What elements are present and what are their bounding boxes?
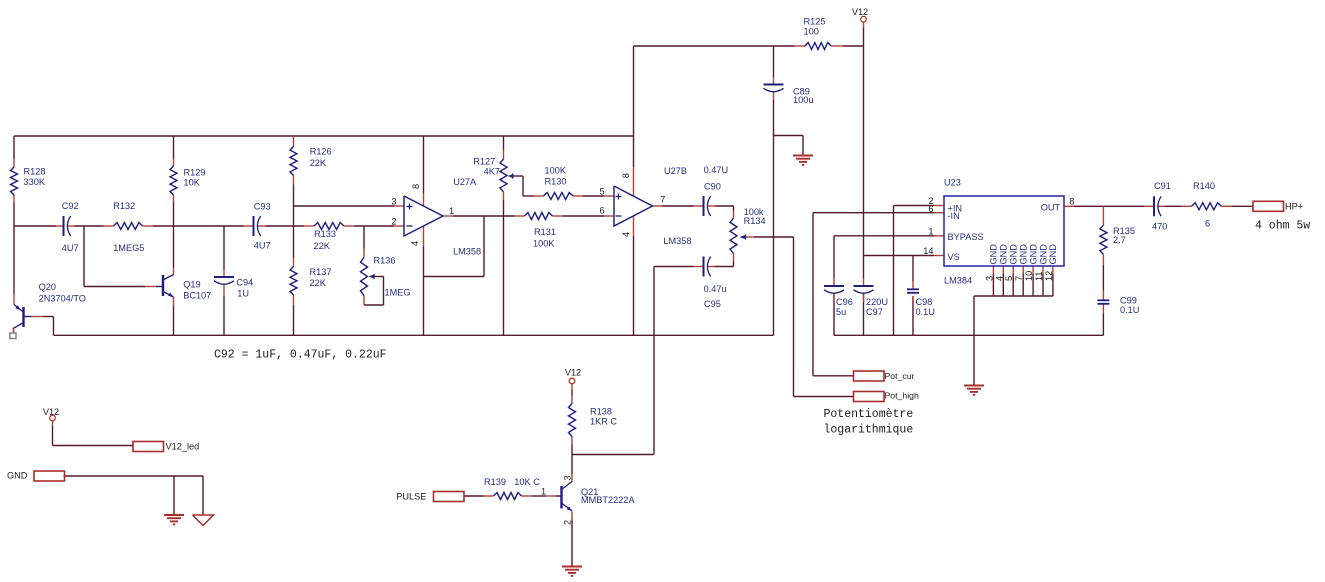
wire U27B pin4 x=633.5 <box>633 236 635 335</box>
pin stubs R133 <box>304 225 314 227</box>
svg-text:U27B: U27B <box>664 166 687 176</box>
pin stubs R132 <box>104 225 114 227</box>
port GND <box>34 471 65 481</box>
wire C89 ground branch <box>774 135 804 137</box>
svg-text:8: 8 <box>621 173 631 178</box>
svg-text:C91: C91 <box>1154 181 1171 191</box>
wire C98 tap x=913 <box>912 256 914 282</box>
pin stubs C96 <box>833 278 835 286</box>
svg-text:100: 100 <box>804 26 819 36</box>
capacitor C89 100u <box>764 84 784 86</box>
capacitor C95 0.47u <box>703 257 705 277</box>
svg-text:2N3704/TO: 2N3704/TO <box>39 293 86 303</box>
svg-text:1: 1 <box>928 226 933 236</box>
svg-text:10K C: 10K C <box>514 477 540 487</box>
svg-text:7: 7 <box>1014 276 1024 281</box>
svg-text:22K: 22K <box>310 158 327 168</box>
pin stubs R136 <box>363 249 365 258</box>
svg-text:10: 10 <box>1024 271 1034 281</box>
wire C95 left column x=654 down to Q21 collector node <box>654 266 694 268</box>
svg-text:V12: V12 <box>565 367 581 377</box>
svg-text:Potentiomètre: Potentiomètre <box>824 408 914 421</box>
svg-text:BC107: BC107 <box>183 290 211 300</box>
pin stub Q20 emitter <box>13 328 15 334</box>
earth ground bottom left <box>164 514 184 516</box>
wire U23 pin2 +IN net <box>894 205 935 207</box>
svg-text:330K: 330K <box>24 177 46 187</box>
wire main signal y=226 <box>14 225 56 227</box>
svg-text:5u: 5u <box>836 307 846 317</box>
pin stubs C90 <box>694 205 704 207</box>
wire R127 wiper to R130 <box>513 175 524 177</box>
svg-text:220U: 220U <box>866 297 888 307</box>
wire U27B output y=206 <box>663 205 694 207</box>
resistor R125 100 <box>805 43 831 50</box>
pin stubs U27B <box>604 195 614 197</box>
svg-text:V12_led: V12_led <box>166 442 200 452</box>
wire R135/C99 column x=1103.4 <box>1102 265 1104 291</box>
svg-text:6: 6 <box>928 204 933 214</box>
svg-text:10K: 10K <box>184 177 201 187</box>
wire op-amp U27A +in y=206 <box>294 205 395 207</box>
wire Q20 base to rail <box>43 316 54 318</box>
svg-text:U27A: U27A <box>453 177 477 187</box>
svg-text:3: 3 <box>563 475 573 480</box>
resistor R139 10K C <box>494 493 522 500</box>
svg-text:1KR C: 1KR C <box>590 417 617 427</box>
svg-text:C95: C95 <box>704 299 721 309</box>
svg-text:C94: C94 <box>236 278 253 288</box>
wire U27B pin8 supply column x=633.5 <box>633 46 635 167</box>
svg-text:3: 3 <box>984 276 994 281</box>
pin stubs Q21 <box>571 474 573 482</box>
svg-text:R128: R128 <box>24 167 46 177</box>
svg-text:LM384: LM384 <box>944 276 972 286</box>
svg-text:R133: R133 <box>314 229 336 239</box>
wire left block top rail y=136 <box>14 135 634 137</box>
pin stubs R126 <box>293 136 295 147</box>
power symbol V12 top <box>861 16 867 22</box>
resistor R140 6 <box>1192 203 1222 210</box>
wire R130 to U27B pin5 <box>583 195 604 197</box>
wire R128 column x=14 <box>13 136 15 159</box>
svg-text:3: 3 <box>391 197 396 207</box>
svg-text:GND: GND <box>1048 244 1058 265</box>
triangle ground bottom left <box>193 515 214 526</box>
resistor R135 2.7 <box>1100 225 1107 254</box>
svg-text:C93: C93 <box>254 202 271 212</box>
pin stubs R140 <box>1182 205 1192 207</box>
svg-text:R138: R138 <box>590 406 612 416</box>
svg-text:GND: GND <box>999 244 1009 265</box>
pin stubs R127 <box>503 150 505 160</box>
capacitor C96 5u <box>824 285 844 287</box>
svg-text:470: 470 <box>1152 222 1167 232</box>
pin stubs U23 left pins <box>934 205 944 207</box>
pin stubs C93 <box>244 225 254 227</box>
svg-text:R140: R140 <box>1193 181 1215 191</box>
svg-text:C90: C90 <box>704 182 721 192</box>
svg-text:R130: R130 <box>545 177 567 187</box>
svg-text:0.47U: 0.47U <box>704 165 729 175</box>
svg-text:HP+: HP+ <box>1285 202 1303 212</box>
port PULSE <box>434 492 465 502</box>
capacitor C92 4U7 <box>63 216 65 236</box>
pin stubs U23 GND pins <box>992 266 994 274</box>
svg-text:R125: R125 <box>804 16 826 26</box>
pin stubs R129 <box>173 159 175 167</box>
wire bottom ground rail y=335 <box>54 334 774 336</box>
wire U23 ground drop x=974 <box>973 296 975 386</box>
svg-text:C98: C98 <box>916 297 933 307</box>
pin stubs R125 <box>795 45 806 47</box>
svg-text:2.7: 2.7 <box>1113 235 1126 245</box>
ground below U23 <box>964 385 984 387</box>
wire C90 to R134 top <box>716 205 734 207</box>
pin stub V12 mid <box>52 421 54 426</box>
svg-text:C96: C96 <box>836 297 853 307</box>
svg-text:R131: R131 <box>534 227 556 237</box>
svg-text:0.1U: 0.1U <box>1120 305 1139 315</box>
resistor R128 330K <box>11 167 18 195</box>
svg-text:GND: GND <box>989 244 999 265</box>
svg-text:logarithmique: logarithmique <box>824 424 914 437</box>
svg-text:V12: V12 <box>852 7 868 17</box>
svg-text:4U7: 4U7 <box>254 240 271 250</box>
svg-text:6: 6 <box>1205 219 1210 229</box>
wire top supply rail y=46 <box>634 45 795 47</box>
pin stubs Q19 <box>173 268 175 276</box>
pin stub Q20 collector <box>13 294 15 305</box>
pin stubs R137 <box>293 258 295 267</box>
svg-text:22K: 22K <box>314 241 331 251</box>
svg-text:100K: 100K <box>533 239 555 249</box>
svg-text:0.47u: 0.47u <box>704 284 727 294</box>
svg-text:GND: GND <box>1038 244 1048 265</box>
wire C89 column x=773.5 <box>773 46 775 77</box>
pin stub V12 top <box>863 22 865 28</box>
svg-text:100K: 100K <box>545 165 567 175</box>
pin stubs R134 <box>733 211 735 219</box>
svg-text:7: 7 <box>660 195 665 205</box>
svg-text:12: 12 <box>1044 271 1054 281</box>
svg-text:C92: C92 <box>62 201 79 211</box>
potentiometer R136 1MEG <box>361 258 368 296</box>
pin stub Q20 base <box>32 316 44 318</box>
svg-text:1MEG5: 1MEG5 <box>113 243 144 253</box>
svg-text:BYPASS: BYPASS <box>948 232 984 242</box>
pin stubs R131 <box>514 215 524 217</box>
wire U27A output y=216 and feedback loop <box>453 215 514 217</box>
wire U27A pin8 x=423.5 <box>423 136 425 193</box>
pin stubs C97 <box>863 278 865 286</box>
wire R134 wiper to Pot_high x=793.5 <box>754 236 794 238</box>
wire V12 to V12_led <box>52 426 54 446</box>
port Pot_cur <box>854 371 885 381</box>
wire U23 pin1 BYPASS to C96 x=834 <box>834 235 934 237</box>
wire PULSE to R139 <box>464 495 484 497</box>
pin stubs C95 <box>694 266 704 268</box>
svg-text:1: 1 <box>449 206 454 216</box>
transistor Q20 2N3704 <box>22 307 24 327</box>
svg-text:4: 4 <box>410 241 420 246</box>
resistor R133 22K <box>314 223 344 230</box>
svg-text:C97: C97 <box>866 307 883 317</box>
svg-text:R139: R139 <box>484 477 506 487</box>
svg-text:V12: V12 <box>43 407 59 417</box>
svg-text:R136: R136 <box>374 256 396 266</box>
svg-text:GND: GND <box>1009 244 1019 265</box>
potentiometer R127 4K7 <box>500 159 507 192</box>
svg-text:0.1U: 0.1U <box>916 307 935 317</box>
capacitor C93 4U7 <box>253 216 255 236</box>
capacitor C91 470 <box>1153 196 1155 216</box>
svg-text:5: 5 <box>1004 276 1014 281</box>
svg-text:4U7: 4U7 <box>62 243 79 253</box>
potentiometer R134 100k <box>730 218 737 254</box>
svg-text:2: 2 <box>391 216 396 226</box>
pin stubs R128 <box>13 159 15 167</box>
svg-text:1: 1 <box>541 486 546 496</box>
wire right ground rail y=335 <box>834 334 1103 336</box>
svg-text:C99: C99 <box>1120 296 1137 306</box>
power symbol V12 bottom left <box>50 415 56 421</box>
resistor R126 22K <box>290 147 297 176</box>
svg-text:2: 2 <box>563 520 573 525</box>
svg-text:LM358: LM358 <box>453 247 481 257</box>
svg-text:22K: 22K <box>310 278 327 288</box>
capacitor C97 220U <box>854 285 874 287</box>
svg-text:1MEG: 1MEG <box>385 287 411 297</box>
svg-text:R127: R127 <box>473 156 495 166</box>
wire U23 OUT net y=206.3 <box>1074 205 1144 207</box>
unconnected pin square Q20 emitter <box>10 333 16 339</box>
ground near C89 <box>793 155 813 157</box>
port V12_led <box>133 442 164 452</box>
wire V12 supply column x=863.5 <box>863 28 865 279</box>
svg-text:R137: R137 <box>310 267 332 277</box>
svg-text:1U: 1U <box>237 288 249 298</box>
pin stubs R139 <box>484 495 494 497</box>
pin stubs C98 <box>912 281 914 289</box>
svg-text:R129: R129 <box>184 167 206 177</box>
svg-text:Pot_cur: Pot_cur <box>885 371 915 381</box>
pin stub U23 OUT <box>1064 205 1074 207</box>
wire U23 pin6 -IN to Pot_cur x=813 <box>813 212 934 214</box>
resistor R130 100K <box>544 193 574 200</box>
svg-text:4K7: 4K7 <box>484 167 500 177</box>
wire R126/R137 column x=293.5 <box>293 185 295 258</box>
pin stubs R135 <box>1102 206 1104 225</box>
IC U23 LM384 box <box>944 196 1064 266</box>
svg-text:R126: R126 <box>310 146 332 156</box>
svg-text:4: 4 <box>621 232 631 237</box>
port Pot_high <box>854 392 885 402</box>
svg-text:4 ohm 5w: 4 ohm 5w <box>1255 220 1310 233</box>
svg-text:4: 4 <box>994 276 1004 281</box>
wire U27A pin4 x=423.5 <box>423 246 425 335</box>
resistor R131 100K <box>524 213 552 220</box>
power symbol V12 at R138 <box>569 378 575 384</box>
svg-text:8: 8 <box>1069 196 1074 206</box>
svg-text:U23: U23 <box>944 177 961 187</box>
ground below Q21 <box>562 566 582 568</box>
svg-text:GND: GND <box>1028 244 1038 265</box>
svg-text:8: 8 <box>411 184 421 189</box>
svg-text:11: 11 <box>1034 271 1044 281</box>
svg-text:100u: 100u <box>793 95 813 105</box>
svg-text:GND: GND <box>7 471 28 481</box>
capacitor C90 0.47U <box>703 196 705 216</box>
wire Q19 base loop x=84 <box>83 226 85 287</box>
wire R136 wiper loop <box>374 276 384 278</box>
wire C96 bottom to rail <box>833 294 835 336</box>
svg-text:PULSE: PULSE <box>396 492 426 502</box>
resistor R138 1KR C <box>569 404 576 437</box>
wire Q21 emitter to ground <box>571 520 573 567</box>
wire GND port net <box>64 475 204 477</box>
svg-text:C92 = 1uF, 0.47uF, 0.22uF: C92 = 1uF, 0.47uF, 0.22uF <box>214 349 387 362</box>
pin stubs R130 <box>534 195 544 197</box>
svg-text:R132: R132 <box>113 201 135 211</box>
pin stubs R138 <box>571 384 573 390</box>
transistor Q21 MMBT2222A <box>560 486 562 509</box>
capacitor C94 1U <box>214 276 234 278</box>
svg-text:5: 5 <box>599 187 604 197</box>
svg-text:GND: GND <box>1019 244 1029 265</box>
resistor R129 10K <box>170 166 177 195</box>
svg-text:Pot_high: Pot_high <box>885 390 919 400</box>
svg-text:LM358: LM358 <box>663 236 691 246</box>
resistor R132 1MEG5 <box>114 223 143 230</box>
resistor R137 22K <box>290 267 297 296</box>
svg-text:MMBT2222A: MMBT2222A <box>581 495 635 505</box>
wire R138/Q21 collector node <box>571 390 573 396</box>
svg-text:14: 14 <box>923 246 933 256</box>
wire R134 bottom to C95 <box>733 262 735 267</box>
wire R127 column x=503.5 <box>503 136 505 150</box>
wire R136 tap x=364 <box>363 226 365 249</box>
wire C94 column x=224 <box>223 226 225 269</box>
svg-text:Q19: Q19 <box>183 279 200 289</box>
svg-text:-IN: -IN <box>948 211 960 221</box>
svg-text:Q20: Q20 <box>39 282 56 292</box>
capacitor C99 0.1U <box>1097 299 1109 301</box>
capacitor C98 0.1U <box>907 288 919 290</box>
wire U23 GND bus <box>974 295 1053 297</box>
wire C91 to R140 to HP+ <box>1165 205 1182 207</box>
op-amp U27B LM358 <box>614 186 653 226</box>
wire R129/Q19 column x=173.5 <box>173 136 175 159</box>
pin stubs C99 <box>1102 291 1104 301</box>
pin stubs C92 <box>56 225 64 227</box>
pin stubs U27A <box>394 205 404 207</box>
pin stubs C91 <box>1144 205 1154 207</box>
wire U23 pin14 VS net y=255.5 <box>864 255 935 257</box>
svg-text:OUT: OUT <box>1041 202 1061 212</box>
op-amp U27A LM358 <box>404 196 443 236</box>
transistor Q19 BC107 <box>162 275 164 296</box>
svg-text:6: 6 <box>599 206 604 216</box>
svg-text:VS: VS <box>948 252 960 262</box>
pin stubs C94 <box>223 269 225 277</box>
pin stubs C89 <box>773 77 775 85</box>
port HP+ <box>1253 201 1284 211</box>
svg-text:R134: R134 <box>744 216 766 226</box>
